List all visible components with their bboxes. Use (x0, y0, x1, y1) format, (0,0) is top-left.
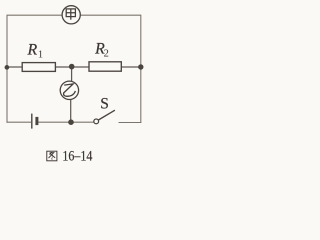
wire battery to middle junction (38, 121, 71, 123)
wire middle junction to switch (71, 121, 94, 123)
svg-text:R: R (27, 42, 38, 59)
wire row2 right (121, 66, 141, 68)
svg-text:S: S (100, 96, 109, 113)
battery cell: long plate (positive) (31, 114, 33, 129)
wire row2 between R1 and R2 (56, 66, 90, 68)
node: middle junction dot (69, 64, 75, 70)
node: right junction dot (138, 64, 143, 69)
meter (yi) circle U2 (60, 81, 78, 99)
meter (yi) character glyph (64, 84, 76, 96)
battery cell: short thick plate (negative) (35, 117, 38, 125)
node: left junction dot (5, 65, 10, 70)
svg-text:1: 1 (38, 50, 43, 61)
wire top-right segment (81, 14, 141, 16)
wire row2 left (7, 66, 22, 68)
wire left vertical (6, 15, 8, 123)
node: bottom junction dot (68, 119, 74, 125)
resistor R1 box (22, 63, 55, 72)
switch S terminal circle (94, 119, 99, 124)
meter (jia) circle U1 (62, 6, 80, 24)
switch S lever (98, 110, 115, 120)
svg-text:2: 2 (104, 48, 109, 59)
wire middle vertical lower (70, 99, 72, 122)
wire middle vertical upper (71, 67, 73, 82)
wire bottom-left to battery (7, 121, 32, 123)
meter (jia) character glyph (66, 9, 75, 20)
caption: tu (figure) character glyph (47, 151, 57, 161)
wire top-left segment (7, 14, 62, 16)
wire right vertical (140, 15, 142, 123)
resistor R2 box (89, 62, 121, 71)
wire switch right stub to corner (119, 122, 142, 124)
svg-text:16–14: 16–14 (62, 148, 92, 164)
